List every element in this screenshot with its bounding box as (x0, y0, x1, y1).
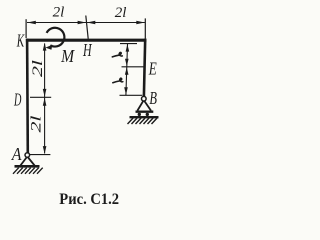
label l (lower right span) (113, 78, 123, 82)
top dim arrow left (at K) (27, 21, 35, 25)
tick at B (120, 94, 143, 96)
tick line at A pin (30, 154, 51, 156)
right column corner-E-B (144, 39, 145, 97)
right dim arrow up from E (125, 67, 129, 74)
left dim arrow up to beam (43, 43, 47, 51)
extension line above right corner (144, 18, 146, 38)
svg-text:K: K (16, 30, 25, 50)
support B hatching (128, 118, 158, 124)
svg-text:B: B (149, 88, 157, 108)
support B triangle (137, 101, 151, 111)
right dim arrow up to top tick (126, 44, 130, 51)
extension line above H (86, 16, 88, 39)
svg-text:E: E (148, 59, 157, 79)
left dim arrow down to D (43, 89, 47, 97)
moment M arrowhead (45, 45, 52, 50)
svg-text:D: D (13, 90, 21, 110)
right dim arrow down to E (125, 59, 129, 66)
pin circle at B (142, 96, 147, 101)
tick at E (122, 66, 144, 68)
tick at D (30, 96, 51, 98)
moment M arc (47, 28, 65, 47)
right dimension line corner-E-B (126, 44, 128, 95)
label l (upper right span) (112, 52, 122, 56)
support B roller right (146, 113, 149, 116)
support B base bar (136, 110, 154, 112)
top dim arrow left of second span (at H) (87, 21, 95, 25)
top dim arrow right of first span (at H) (78, 21, 86, 25)
svg-text:2l: 2l (53, 5, 65, 21)
left column K-D-A (26, 39, 29, 153)
support A hatching (13, 168, 43, 174)
support B ground bar (130, 116, 159, 118)
svg-text:Рис. С1.2: Рис. С1.2 (59, 191, 119, 208)
svg-text:2l: 2l (30, 60, 46, 77)
svg-text:2l: 2l (115, 5, 127, 21)
svg-text:A: A (11, 144, 22, 164)
tick at top of right dim (120, 43, 137, 45)
left dim arrow up from D (43, 98, 47, 106)
left dimension line K-D-A (44, 44, 46, 154)
right dim arrow down to B (124, 87, 128, 94)
svg-text:H: H (82, 40, 92, 60)
top dimension line (27, 22, 145, 24)
svg-text:2l: 2l (29, 116, 45, 133)
left dim arrow down to A (43, 146, 47, 154)
extension line above K (25, 19, 27, 38)
support A triangle (20, 157, 34, 166)
svg-text:M: M (60, 46, 75, 66)
support A ground bar (15, 165, 40, 168)
top dim arrow right (at corner) (136, 21, 144, 25)
pin circle at A (25, 153, 30, 158)
top beam K-H-corner (26, 39, 146, 42)
support B roller left (138, 113, 141, 116)
